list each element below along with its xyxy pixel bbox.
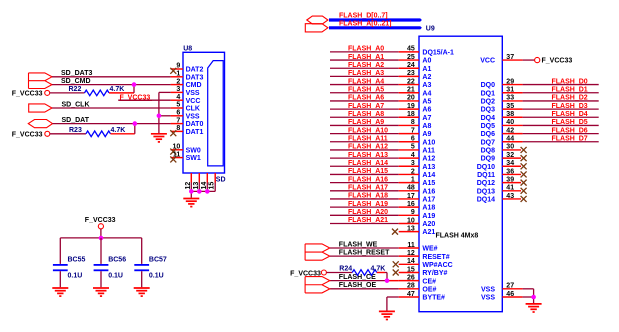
bus FLASH_D[0..7] <box>329 18 422 21</box>
svg-text:FLASH_OE: FLASH_OE <box>339 282 377 289</box>
svg-text:FLASH_A4: FLASH_A4 <box>348 78 384 85</box>
svg-text:12: 12 <box>407 250 415 257</box>
svg-text:DQ1: DQ1 <box>481 90 496 97</box>
U9 pin 13 (A21) no-connect <box>399 231 419 233</box>
U8 pin 10 (SW0) no-connect <box>171 149 183 151</box>
svg-text:11: 11 <box>173 151 181 158</box>
U9 pin 21 (A4) with net FLASH_A5 <box>330 92 399 94</box>
svg-text:WE#: WE# <box>422 246 437 253</box>
svg-text:11: 11 <box>407 242 415 249</box>
svg-text:29: 29 <box>506 78 514 85</box>
svg-text:4.7K: 4.7K <box>371 266 386 273</box>
U8 pin 4 (VCC) <box>171 99 183 101</box>
wire SD_CLK <box>52 107 171 109</box>
svg-text:DAT1: DAT1 <box>186 129 204 136</box>
svg-text:27: 27 <box>506 283 514 290</box>
U9 pin 27 (VSS) <box>502 288 522 290</box>
svg-text:DQ3: DQ3 <box>481 107 496 114</box>
svg-text:DQ4: DQ4 <box>481 115 496 122</box>
U9 pin 30 (DQ8) no-connect <box>502 149 521 151</box>
svg-text:VSS: VSS <box>481 295 495 302</box>
U8 pin 8 (DAT1) <box>171 130 183 132</box>
U8 pin 2 (CMD) <box>171 84 183 86</box>
off-page connector FLASH_WE / FLASH_RESET <box>305 244 330 260</box>
svg-text:RESET#: RESET# <box>422 254 449 261</box>
svg-text:A17: A17 <box>422 197 435 204</box>
U9 pin 36 (DQ11) no-connect <box>502 173 521 175</box>
svg-text:FLASH_A3: FLASH_A3 <box>348 70 384 77</box>
U9 pin 16 (A18) with net FLASH_A19 <box>330 206 399 208</box>
wire VSS rail to ground <box>533 289 535 297</box>
svg-text:BYTE#: BYTE# <box>422 295 445 302</box>
svg-text:40: 40 <box>506 119 514 126</box>
U9 pin 26 (CE#) <box>399 280 419 282</box>
U9 pin 17 (A17) with net FLASH_A18 <box>330 198 399 200</box>
svg-text:FLASH_A6: FLASH_A6 <box>348 95 384 102</box>
svg-text:3: 3 <box>176 86 180 93</box>
svg-text:DQ12: DQ12 <box>477 180 495 187</box>
svg-text:FLASH_D0: FLASH_D0 <box>552 78 588 85</box>
U9 pin 28 (OE#) <box>399 288 419 290</box>
U9 pin 34 (DQ10) no-connect <box>502 165 521 167</box>
svg-text:FLASH_A[0..21]: FLASH_A[0..21] <box>339 20 392 27</box>
svg-text:VCC: VCC <box>480 58 495 65</box>
resistor R23 4.7K pullup <box>50 133 86 135</box>
svg-text:8: 8 <box>176 125 180 132</box>
svg-text:DQ5: DQ5 <box>481 123 496 130</box>
svg-text:CLK: CLK <box>186 106 200 113</box>
svg-text:31: 31 <box>506 87 514 94</box>
svg-text:DQ13: DQ13 <box>477 188 495 195</box>
svg-text:26: 26 <box>407 274 415 281</box>
U9 pin 31 (DQ1) with net FLASH_D1 <box>502 92 522 94</box>
svg-text:DQ14: DQ14 <box>477 197 495 204</box>
svg-text:VSS: VSS <box>481 286 495 293</box>
svg-text:FLASH_A10: FLASH_A10 <box>348 127 388 134</box>
svg-text:WP#ACC: WP#ACC <box>422 262 452 269</box>
svg-text:FLASH_A18: FLASH_A18 <box>348 193 388 200</box>
svg-text:A2: A2 <box>422 74 431 81</box>
svg-text:U8: U8 <box>183 46 192 53</box>
svg-text:A15: A15 <box>422 180 435 187</box>
U9 pin 25 (A0) with net FLASH_A1 <box>330 59 399 61</box>
svg-text:FLASH_A8: FLASH_A8 <box>348 111 384 118</box>
svg-text:A6: A6 <box>422 107 431 114</box>
junction dots on U8 bottom wire <box>189 189 194 194</box>
U9 pin 41 (DQ13) no-connect <box>502 190 521 192</box>
U9 pin 45 (DQ15/A-1) with net FLASH_A0 <box>330 51 399 53</box>
svg-text:A10: A10 <box>422 139 435 146</box>
svg-text:4.7K: 4.7K <box>111 127 126 134</box>
svg-text:A20: A20 <box>422 221 435 228</box>
svg-text:FLASH_A13: FLASH_A13 <box>348 152 388 159</box>
junction of R23 with SD_DAT <box>133 121 138 126</box>
U9 pin 32 (DQ9) no-connect <box>502 157 521 159</box>
ground below BC56 <box>93 288 109 296</box>
svg-text:BC56: BC56 <box>108 256 126 263</box>
svg-text:33: 33 <box>506 95 514 102</box>
U9 pin 14 (WP#ACC) <box>399 263 419 265</box>
svg-text:3: 3 <box>411 160 415 167</box>
svg-text:FLASH_A12: FLASH_A12 <box>348 144 388 151</box>
svg-text:RY/BY#: RY/BY# <box>422 270 447 277</box>
svg-text:44: 44 <box>506 136 514 143</box>
U9 pin 7 (A9) with net FLASH_A10 <box>330 133 399 135</box>
U8 bottom pins 12-15 <box>190 173 192 183</box>
off-page connector FLASH_CE / FLASH_OE <box>305 277 330 293</box>
svg-text:VSS: VSS <box>186 90 200 97</box>
U9 pin 39 (DQ12) no-connect <box>502 182 521 184</box>
svg-text:DQ11: DQ11 <box>477 172 495 179</box>
svg-text:2: 2 <box>411 168 415 175</box>
svg-text:SW1: SW1 <box>186 155 201 162</box>
svg-text:4.7K: 4.7K <box>110 86 125 93</box>
flash memory U9 box <box>419 36 502 312</box>
capacitor BC55 0.1U <box>59 238 61 264</box>
svg-text:A3: A3 <box>422 82 431 89</box>
junction of R24 with FLASH_CE <box>385 278 390 283</box>
svg-text:DQ15/A-1: DQ15/A-1 <box>422 50 454 57</box>
svg-text:20: 20 <box>407 95 415 102</box>
svg-text:DAT0: DAT0 <box>186 121 204 128</box>
U9 pin 12 (RESET#) <box>399 255 419 257</box>
svg-text:42: 42 <box>506 127 514 134</box>
U9 pin 44 (DQ7) with net FLASH_D7 <box>502 141 522 143</box>
svg-text:DQ2: DQ2 <box>481 99 496 106</box>
off-page connector SD_CLK <box>29 104 52 112</box>
U8 pin 1 (DAT3) <box>171 76 183 78</box>
wire SD_DAT <box>53 123 171 125</box>
svg-text:15: 15 <box>407 266 415 273</box>
svg-text:36: 36 <box>506 168 514 175</box>
bus connector FLASH_A <box>305 24 328 32</box>
svg-text:19: 19 <box>407 103 415 110</box>
svg-text:FLASH_D6: FLASH_D6 <box>552 127 588 134</box>
svg-text:4: 4 <box>411 152 415 159</box>
svg-text:CE#: CE# <box>422 278 436 285</box>
U9 pin 6 (A10) with net FLASH_A11 <box>330 141 399 143</box>
svg-text:0.1U: 0.1U <box>108 273 123 280</box>
resistor R22 4.7K pullup <box>50 92 85 94</box>
svg-text:A19: A19 <box>422 213 435 220</box>
wire F_VCC33 to U8 VCC pin <box>118 99 170 101</box>
svg-text:18: 18 <box>407 111 415 118</box>
svg-text:6: 6 <box>411 136 415 143</box>
U8 pin 7 (DAT0) <box>171 123 183 125</box>
svg-text:41: 41 <box>506 185 514 192</box>
U8 pin 9 (DAT2) <box>171 68 183 70</box>
svg-text:0.1U: 0.1U <box>68 273 83 280</box>
U9 pin 19 (A6) with net FLASH_A7 <box>330 108 399 110</box>
junction of R22 with SD_CMD <box>132 82 137 87</box>
U8 pin 3 (VSS) <box>171 91 183 93</box>
svg-text:F_VCC33: F_VCC33 <box>12 131 43 138</box>
svg-text:14: 14 <box>407 258 415 265</box>
wire U8 VSS pin3 to ground rail <box>159 91 171 93</box>
svg-text:DQ7: DQ7 <box>481 139 496 146</box>
svg-text:DQ0: DQ0 <box>481 82 496 89</box>
svg-text:9: 9 <box>411 209 415 216</box>
resistor R24 4.7K pullup on FLASH_CE <box>326 271 352 273</box>
svg-text:47: 47 <box>407 291 415 298</box>
svg-text:F_VCC33: F_VCC33 <box>542 57 573 64</box>
svg-text:FLASH_A1: FLASH_A1 <box>348 54 384 61</box>
U9 pin 18 (A7) with net FLASH_A8 <box>330 116 399 118</box>
svg-text:FLASH_A11: FLASH_A11 <box>348 135 388 142</box>
svg-text:FLASH_A14: FLASH_A14 <box>348 160 388 167</box>
svg-text:A9: A9 <box>422 131 431 138</box>
U9 pin 38 (DQ4) with net FLASH_D4 <box>502 116 522 118</box>
svg-text:16: 16 <box>407 201 415 208</box>
svg-text:A4: A4 <box>422 90 431 97</box>
svg-text:FLASH_A15: FLASH_A15 <box>348 168 388 175</box>
svg-text:FLASH_A2: FLASH_A2 <box>348 62 384 69</box>
svg-text:A18: A18 <box>422 205 435 212</box>
capacitor BC57 0.1U <box>141 238 143 264</box>
svg-text:25: 25 <box>407 54 415 61</box>
U9 pin 29 (DQ0) with net FLASH_D0 <box>502 84 522 86</box>
svg-text:FLASH_A0: FLASH_A0 <box>348 46 384 53</box>
svg-text:7: 7 <box>176 117 180 124</box>
svg-text:7: 7 <box>411 127 415 134</box>
svg-text:A12: A12 <box>422 156 435 163</box>
U9 pin 46 (VSS) <box>502 296 522 298</box>
svg-text:FLASH_D2: FLASH_D2 <box>552 95 588 102</box>
svg-text:43: 43 <box>506 193 514 200</box>
svg-text:DQ9: DQ9 <box>481 156 496 163</box>
wire SD_CMD <box>52 84 171 86</box>
U9 pin 11 (WE#) <box>399 247 419 249</box>
U9 pin 37 (VCC) to F_VCC33 <box>502 59 522 61</box>
svg-text:FLASH_A21: FLASH_A21 <box>348 217 388 224</box>
svg-text:2: 2 <box>176 78 180 85</box>
U9 pin 2 (A14) with net FLASH_A15 <box>330 173 399 175</box>
svg-text:A0: A0 <box>422 58 431 65</box>
capacitor BC56 0.1U <box>100 238 102 264</box>
U9 pin 40 (DQ5) with net FLASH_D5 <box>502 124 522 126</box>
svg-text:A1: A1 <box>422 66 431 73</box>
svg-text:SD: SD <box>216 177 226 184</box>
svg-text:F_VCC33: F_VCC33 <box>12 90 43 97</box>
svg-text:SW0: SW0 <box>186 147 201 154</box>
ground for BYTE# <box>379 311 395 319</box>
U8 pin 5 (CLK) <box>171 107 183 109</box>
U9 pin 47 (BYTE#) wired to ground <box>399 296 419 298</box>
svg-text:FLASH_RESET: FLASH_RESET <box>339 249 390 256</box>
SD socket U8 box <box>183 52 225 173</box>
svg-text:FLASH_D7: FLASH_D7 <box>552 135 588 142</box>
ground below BC55 <box>52 288 68 296</box>
svg-text:DQ8: DQ8 <box>481 148 496 155</box>
ground for U9 VSS <box>526 304 542 312</box>
svg-text:F_VCC33: F_VCC33 <box>85 217 116 224</box>
svg-text:9: 9 <box>176 63 180 70</box>
svg-text:FLASH_A9: FLASH_A9 <box>348 119 384 126</box>
U9 pin 24 (A1) with net FLASH_A2 <box>330 67 399 69</box>
wire from U8 bottom pins to ground <box>190 183 192 192</box>
svg-text:FLASH_A17: FLASH_A17 <box>348 184 388 191</box>
svg-text:DAT3: DAT3 <box>186 74 204 81</box>
U9 pin 3 (A13) with net FLASH_A14 <box>330 165 399 167</box>
svg-text:1: 1 <box>411 176 415 183</box>
svg-text:VSS: VSS <box>186 113 200 120</box>
svg-text:SD_DAT3: SD_DAT3 <box>61 70 92 77</box>
svg-text:24: 24 <box>407 62 415 69</box>
U9 pin 5 (A11) with net FLASH_A12 <box>330 149 399 151</box>
bus connector FLASH_D (bidirectional) <box>307 16 328 24</box>
svg-text:A13: A13 <box>422 164 435 171</box>
U9 pin 4 (A12) with net FLASH_A13 <box>330 157 399 159</box>
svg-text:21: 21 <box>407 87 415 94</box>
U9 pin 10 (A20) with net FLASH_A21 <box>330 222 399 224</box>
U9 pin 23 (A2) with net FLASH_A3 <box>330 75 399 77</box>
U9 pin 15 (RY/BY#) <box>399 271 419 273</box>
junction VSS pins <box>531 295 536 300</box>
ground for U8 VSS <box>151 134 167 142</box>
svg-text:DQ6: DQ6 <box>481 131 496 138</box>
svg-text:28: 28 <box>407 283 415 290</box>
svg-text:DQ10: DQ10 <box>477 164 495 171</box>
junction VSS rail <box>157 114 162 119</box>
ground below BC57 <box>134 288 150 296</box>
svg-text:0.1U: 0.1U <box>149 273 164 280</box>
svg-text:FLASH_D[0..7]: FLASH_D[0..7] <box>339 12 388 19</box>
svg-text:R23: R23 <box>69 127 82 134</box>
SD card glyph inside U8 <box>208 61 224 166</box>
svg-text:46: 46 <box>506 291 514 298</box>
svg-text:FLASH_D1: FLASH_D1 <box>552 86 588 93</box>
svg-text:A14: A14 <box>422 172 435 179</box>
svg-text:FLASH_A20: FLASH_A20 <box>348 209 388 216</box>
svg-text:FLASH_A7: FLASH_A7 <box>348 103 384 110</box>
svg-text:A8: A8 <box>422 123 431 130</box>
svg-text:37: 37 <box>506 54 514 61</box>
svg-text:45: 45 <box>407 46 415 53</box>
U9 pin 9 (A19) with net FLASH_A20 <box>330 214 399 216</box>
svg-text:39: 39 <box>506 176 514 183</box>
ground below U8 bottom pins <box>183 199 199 207</box>
U9 pin 35 (DQ3) with net FLASH_D3 <box>502 108 522 110</box>
U9 pin 33 (DQ2) with net FLASH_D2 <box>502 100 522 102</box>
wire SD_DAT3 <box>52 76 171 78</box>
svg-text:A21: A21 <box>422 229 435 236</box>
svg-text:BC55: BC55 <box>68 256 86 263</box>
svg-text:R22: R22 <box>69 86 82 93</box>
svg-text:23: 23 <box>407 70 415 77</box>
svg-text:13: 13 <box>407 225 415 232</box>
U9 pin 43 (DQ14) no-connect <box>502 198 521 200</box>
wire U8 VSS pin6 to ground rail <box>159 115 171 117</box>
svg-text:6: 6 <box>176 110 180 117</box>
svg-text:FLASH_WE: FLASH_WE <box>339 241 378 248</box>
svg-text:FLASH_A19: FLASH_A19 <box>348 201 388 208</box>
svg-text:5: 5 <box>176 102 180 109</box>
svg-text:38: 38 <box>506 111 514 118</box>
svg-text:30: 30 <box>506 144 514 151</box>
svg-text:BC57: BC57 <box>149 256 167 263</box>
svg-text:FLASH_D3: FLASH_D3 <box>552 103 588 110</box>
svg-text:A16: A16 <box>422 188 435 195</box>
bus FLASH_A[0..21] <box>329 26 422 29</box>
U8 pin 6 (VSS) <box>171 115 183 117</box>
svg-text:34: 34 <box>506 160 514 167</box>
svg-text:FLASH_A5: FLASH_A5 <box>348 86 384 93</box>
svg-text:F_VCC33: F_VCC33 <box>290 270 321 277</box>
junction on cap rail <box>99 236 104 241</box>
svg-text:CMD: CMD <box>186 82 202 89</box>
svg-text:35: 35 <box>506 103 514 110</box>
U9 pin 8 (A8) with net FLASH_A9 <box>330 124 399 126</box>
U9 pin 48 (A16) with net FLASH_A17 <box>330 190 399 192</box>
svg-text:VCC: VCC <box>186 98 201 105</box>
svg-text:OE#: OE# <box>422 286 436 293</box>
svg-text:A7: A7 <box>422 115 431 122</box>
U9 pin 22 (A3) with net FLASH_A4 <box>330 84 399 86</box>
svg-text:22: 22 <box>407 78 415 85</box>
svg-text:8: 8 <box>411 119 415 126</box>
U9 pin 1 (A15) with net FLASH_A16 <box>330 182 399 184</box>
svg-text:A5: A5 <box>422 99 431 106</box>
svg-text:48: 48 <box>407 185 415 192</box>
svg-text:FLASH_D5: FLASH_D5 <box>552 119 588 126</box>
svg-text:10: 10 <box>407 217 415 224</box>
off-page connector SD_DAT (bidirectional) <box>28 120 52 128</box>
svg-text:5: 5 <box>411 144 415 151</box>
svg-text:10: 10 <box>173 144 181 151</box>
svg-text:FLASH 4Mx8: FLASH 4Mx8 <box>436 233 479 240</box>
U9 pin 20 (A5) with net FLASH_A6 <box>330 100 399 102</box>
svg-text:1: 1 <box>176 71 180 78</box>
power rail wire for caps <box>60 237 141 239</box>
svg-text:17: 17 <box>407 193 415 200</box>
svg-text:U9: U9 <box>426 25 435 32</box>
power port F_VCC33 at U9 VCC <box>535 57 540 62</box>
U8 pin 11 (SW1) no-connect <box>171 157 183 159</box>
svg-text:4: 4 <box>176 94 180 101</box>
U9 pin 42 (DQ6) with net FLASH_D6 <box>502 133 522 135</box>
svg-text:FLASH_D4: FLASH_D4 <box>552 111 588 118</box>
svg-text:R24: R24 <box>339 266 352 273</box>
svg-text:FLASH_A16: FLASH_A16 <box>348 176 388 183</box>
off-page connector SD_DAT3 / SD_CMD <box>29 73 53 89</box>
svg-text:DAT2: DAT2 <box>186 67 204 74</box>
svg-text:A11: A11 <box>422 148 435 155</box>
svg-text:32: 32 <box>506 152 514 159</box>
